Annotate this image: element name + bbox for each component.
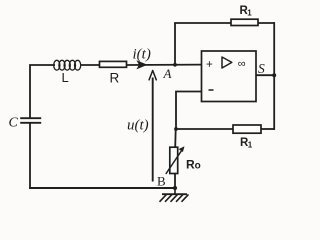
svg-text:L: L: [62, 70, 69, 85]
svg-text:R: R: [110, 71, 120, 86]
wire: [256, 74, 275, 76]
resistor R: [100, 61, 127, 67]
wire: [258, 22, 275, 24]
op-amp U1: [202, 51, 257, 102]
node A: [173, 63, 177, 67]
voltage arrow u(t): [127, 71, 156, 182]
capacitor C: [9, 116, 42, 131]
node S junction: [272, 73, 276, 77]
potentiometer R0: [166, 146, 201, 174]
svg-text:C: C: [9, 116, 19, 131]
inductor L: [54, 60, 81, 70]
svg-text:A: A: [163, 66, 172, 81]
resistor R1 (bottom): [233, 125, 261, 133]
wire: [29, 187, 175, 189]
wire: [174, 173, 176, 189]
svg-text:+: +: [206, 59, 213, 71]
current arrow i(t): [136, 60, 147, 69]
wire: [174, 23, 176, 65]
svg-text:o: o: [195, 161, 201, 172]
svg-text:u(t): u(t): [127, 118, 149, 134]
wire: [127, 64, 202, 66]
wire: [29, 123, 31, 189]
wire: [30, 65, 55, 118]
node junction: [174, 127, 178, 131]
wire: [175, 128, 233, 130]
svg-text:S: S: [258, 61, 265, 76]
svg-text:∞: ∞: [238, 58, 246, 70]
wire: [81, 64, 100, 66]
ground: [160, 188, 189, 202]
svg-text:i(t): i(t): [133, 47, 151, 63]
wire: [174, 129, 177, 148]
wire: [174, 22, 231, 24]
svg-text:B: B: [157, 174, 166, 189]
wire: [176, 92, 202, 130]
wire: [261, 128, 275, 130]
node B: [173, 186, 177, 190]
svg-text:1: 1: [247, 9, 252, 18]
wire: [273, 22, 275, 130]
resistor R1 (top): [231, 19, 258, 25]
svg-text:1: 1: [248, 141, 253, 150]
